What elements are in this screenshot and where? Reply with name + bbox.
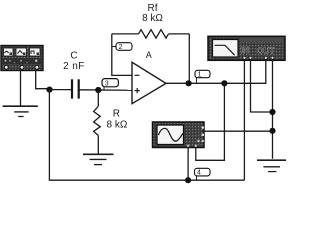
wire Bode IN- to ground net bbox=[251, 61, 273, 113]
svg-text:C: C bbox=[70, 51, 77, 62]
junction node 3 bbox=[95, 87, 101, 93]
node 4 label box bbox=[195, 168, 211, 180]
oscilloscope XSC1 bbox=[153, 122, 205, 148]
resistor R 8 kOhm bbox=[94, 90, 128, 154]
wire scope ground terminal to ground net bbox=[204, 130, 273, 132]
wire scope channel A down to rail bbox=[187, 148, 189, 181]
wire Bode IN+ down to bottom rail bbox=[243, 61, 245, 181]
capacitor C 2 nF bbox=[63, 51, 85, 99]
svg-text:4: 4 bbox=[197, 170, 201, 177]
junction output/Rf bbox=[186, 80, 192, 86]
wire op-amp output (node 1) bbox=[166, 61, 266, 84]
junction IN- / ground bbox=[269, 109, 275, 115]
wire node 4 net down to bottom rail bbox=[49, 90, 244, 181]
ground (bottom right) bbox=[257, 160, 286, 171]
junction output/scope-B bbox=[221, 80, 227, 86]
svg-text:IN: IN bbox=[241, 45, 250, 55]
function generator XFG1 bbox=[1, 46, 43, 71]
resistor Rf 8 kOhm (feedback) bbox=[112, 3, 190, 38]
wire inverting input net (node 2) bbox=[112, 34, 132, 76]
junction rail / channel A bbox=[185, 177, 191, 183]
svg-text:OUT: OUT bbox=[257, 45, 276, 55]
wire generator COM to ground bbox=[20, 69, 22, 106]
svg-text:A: A bbox=[146, 50, 152, 60]
wire generator output to node 4 junction bbox=[36, 69, 50, 89]
junction scope ground bbox=[269, 128, 275, 134]
node 1 label box bbox=[195, 70, 210, 83]
junction node 4 at generator/capacitor bbox=[46, 87, 52, 93]
Bode plotter XBP1 bbox=[208, 36, 285, 60]
wire Rf right end down to output bbox=[188, 34, 190, 83]
ground (below R) bbox=[83, 154, 114, 164]
ground (below generator) bbox=[3, 106, 38, 116]
svg-text:1: 1 bbox=[198, 72, 202, 79]
op-amp A bbox=[132, 50, 166, 104]
node 2 label box bbox=[112, 43, 132, 51]
svg-text:8 kΩ: 8 kΩ bbox=[142, 13, 163, 24]
svg-text:3: 3 bbox=[105, 80, 109, 87]
svg-text:2: 2 bbox=[119, 44, 123, 51]
wire scope channel B to output node bbox=[196, 83, 225, 160]
svg-text:R: R bbox=[113, 108, 120, 119]
wire junction to capacitor left plate bbox=[50, 89, 72, 91]
svg-text:2 nF: 2 nF bbox=[63, 61, 85, 72]
wire Bode OUT- / ground vertical bbox=[272, 61, 274, 159]
svg-text:8 kΩ: 8 kΩ bbox=[107, 120, 128, 131]
node 3 label box bbox=[102, 79, 118, 90]
wire capacitor to op-amp + input bbox=[80, 89, 133, 92]
